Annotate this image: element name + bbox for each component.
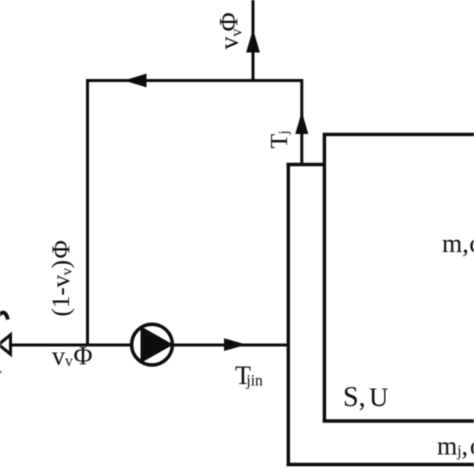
wire: recycle top horizontal line bbox=[86, 79, 303, 82]
arrowhead: leftward on recycle line bbox=[124, 74, 147, 88]
vessel top wall bbox=[323, 133, 474, 136]
jacket left wall bbox=[287, 163, 290, 466]
jacket bottom wall bbox=[287, 463, 474, 466]
jacket top connector line bbox=[287, 163, 327, 166]
svg-text:Tj: Tj bbox=[267, 130, 293, 148]
wire: pump suction/discharge horizontal line bbox=[9, 344, 288, 347]
arrowhead: rightward on pump discharge bbox=[224, 338, 247, 351]
pump P1 impeller triangle bbox=[141, 326, 174, 363]
svg-text:vvΦ: vvΦ bbox=[215, 12, 246, 49]
svg-text:S,U: S,U bbox=[343, 382, 388, 413]
partial glyph cut at left edge (bottom) bbox=[0, 371, 1, 374]
svg-text:(1-vv)Φ: (1-vv)Φ bbox=[48, 240, 76, 316]
partial glyph cut at left edge (top) bbox=[0, 313, 8, 322]
svg-text:m,c: m,c bbox=[442, 229, 474, 258]
wire: left recycle vertical line bbox=[86, 79, 89, 346]
vessel bottom wall bbox=[323, 419, 474, 422]
svg-text:mj,c: mj,c bbox=[437, 432, 474, 461]
valve (half bowtie) at left edge bbox=[0, 335, 11, 354]
arrowhead: upward on vent branch bbox=[246, 29, 260, 53]
svg-text:Tjin: Tjin bbox=[235, 361, 263, 390]
pump P1 circle bbox=[132, 324, 173, 365]
wire: vent branch vertical line to top edge bbox=[252, 0, 255, 82]
vessel left wall bbox=[323, 133, 326, 423]
wire: jacket outlet vertical line bbox=[300, 79, 303, 166]
arrowhead: upward on jacket outlet bbox=[295, 112, 308, 135]
